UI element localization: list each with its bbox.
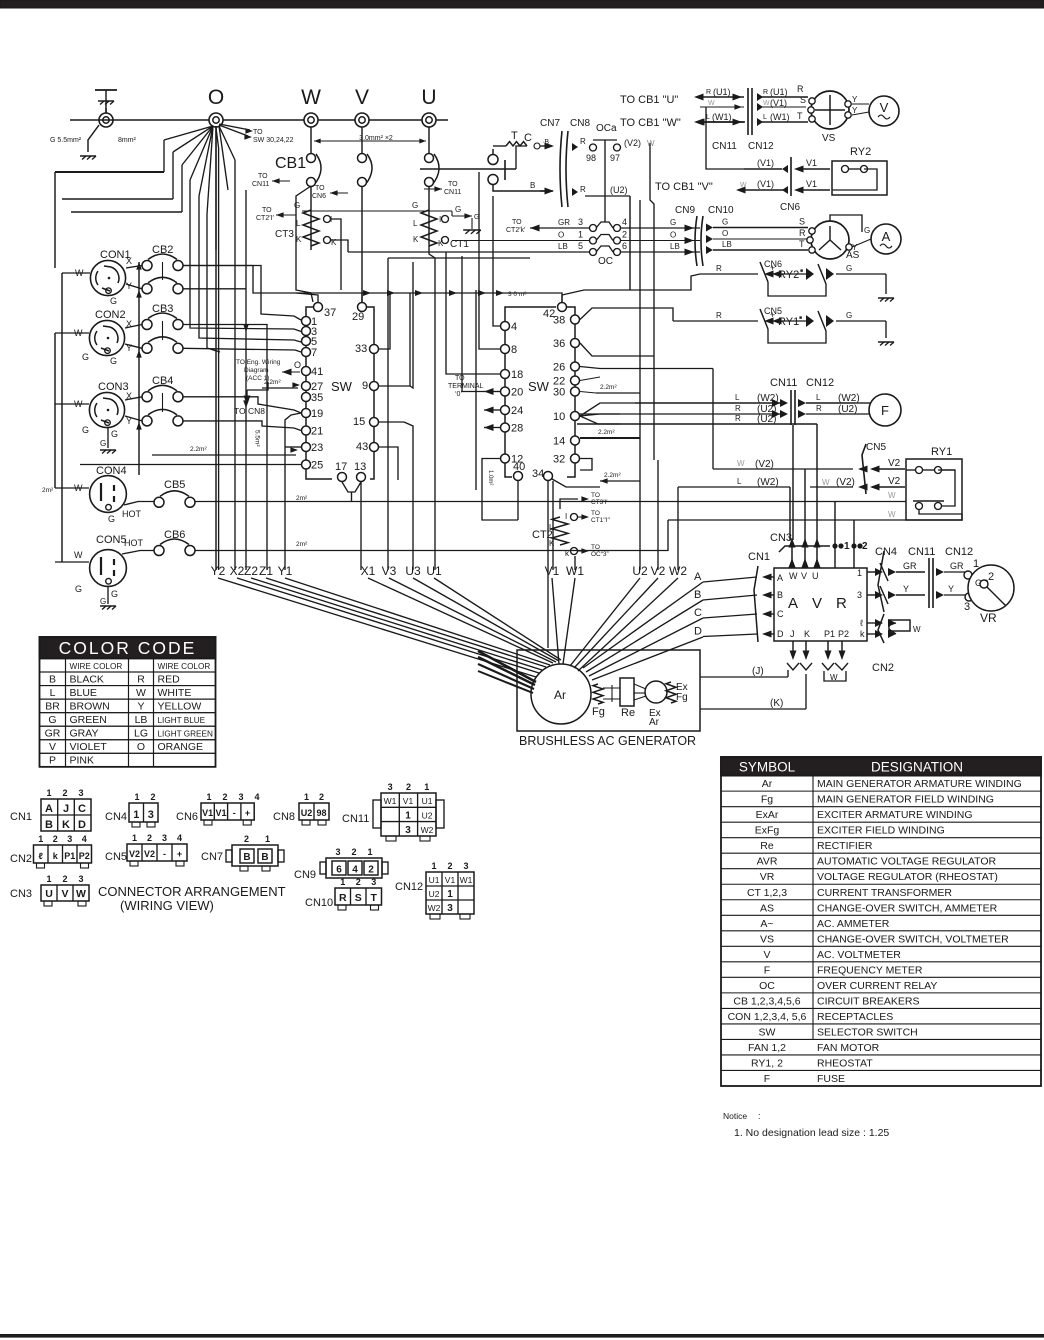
svg-text:A: A: [788, 595, 798, 612]
svg-text:LB: LB: [558, 242, 568, 251]
svg-text:U2: U2: [429, 889, 440, 899]
SW2 pin 8: [501, 345, 510, 354]
connector CN11/CN12 (VS): [747, 88, 749, 135]
svg-text:T: T: [371, 892, 378, 904]
svg-text:CT2′k′: CT2′k′: [506, 227, 526, 234]
svg-text:T: T: [797, 111, 803, 121]
svg-text:R: R: [137, 673, 145, 685]
svg-text:1: 1: [424, 782, 429, 792]
svg-text:K: K: [549, 539, 555, 548]
svg-text:A: A: [882, 229, 891, 244]
svg-text:28: 28: [511, 423, 523, 435]
SW2 pin 22: [571, 376, 580, 385]
svg-text:2.2m²: 2.2m²: [600, 384, 617, 391]
svg-text:(W1): (W1): [712, 112, 732, 122]
meter AS: [811, 221, 849, 259]
ground (RY2): [878, 298, 894, 302]
SW2 pin 32: [571, 454, 580, 463]
SW1 pin 3: [302, 327, 311, 336]
svg-text:B: B: [243, 852, 250, 863]
wire V2 vert: [657, 369, 659, 571]
ground (RY1): [878, 342, 894, 346]
svg-text:A: A: [694, 571, 702, 583]
svg-text:CN11: CN11: [712, 141, 737, 152]
svg-text:CN4: CN4: [875, 546, 897, 558]
svg-text:CN1: CN1: [748, 551, 770, 563]
svg-text:2: 2: [356, 877, 361, 887]
svg-text:CN6: CN6: [176, 811, 198, 823]
wire CN10 LB row: [706, 246, 713, 254]
SW1 pin 25: [302, 460, 311, 469]
svg-text:O: O: [137, 741, 145, 753]
svg-text:I: I: [439, 215, 441, 224]
svg-text:2: 2: [988, 571, 994, 583]
svg-text:(V1): (V1): [757, 179, 774, 189]
svg-text:3: 3: [238, 792, 243, 802]
svg-text:R: R: [799, 228, 806, 238]
svg-text:TO: TO: [448, 181, 458, 188]
svg-text:1: 1: [367, 847, 372, 857]
SW2 pin 34: [544, 472, 553, 481]
label TO OC 3: [578, 550, 585, 552]
SW1 pin 7: [302, 348, 311, 357]
wire mid vert U1: [429, 244, 435, 570]
svg-text:FUSE: FUSE: [817, 1073, 845, 1085]
connector CN4 arcs: [878, 551, 884, 612]
wire CB4Y out: [183, 421, 301, 431]
svg-text:LB: LB: [722, 240, 732, 249]
svg-text:SW 30,24,22: SW 30,24,22: [253, 137, 294, 144]
SW2 pin 24: [501, 406, 510, 415]
svg-text:W2: W2: [421, 825, 434, 835]
svg-text:T: T: [511, 130, 518, 142]
ground (CON5): [107, 586, 109, 604]
wire 34 bend: [553, 476, 604, 490]
svg-text:k: k: [860, 629, 865, 639]
wire R drop CN7: [629, 289, 631, 291]
connector CN2 arrows JK: [787, 663, 799, 670]
SW1 pin 23: [302, 443, 311, 452]
svg-text:V1: V1: [202, 808, 213, 818]
breaker CB4 pole X: [142, 392, 152, 402]
svg-text:W: W: [708, 100, 715, 107]
wire SW1 37 up: [296, 293, 318, 302]
op-amp AVR box: [774, 568, 867, 641]
svg-text:BLUE: BLUE: [70, 687, 97, 699]
wire A fan: [583, 582, 703, 668]
ground (left): [80, 156, 96, 160]
svg-text:(V1): (V1): [770, 98, 787, 108]
svg-text:U: U: [45, 888, 53, 900]
SW2 pin 30: [571, 387, 580, 396]
svg-text:13: 13: [354, 461, 366, 473]
svg-text:W: W: [830, 673, 838, 682]
svg-text:V: V: [763, 949, 770, 961]
svg-text:OVER CURRENT RELAY: OVER CURRENT RELAY: [817, 980, 937, 992]
svg-text:P1: P1: [64, 851, 75, 861]
SW1 pin 21: [302, 426, 311, 435]
svg-text:GR: GR: [903, 561, 917, 571]
breaker CB3 pole Y: [142, 343, 152, 353]
svg-text:W: W: [740, 182, 747, 189]
svg-text:O: O: [722, 229, 728, 238]
wire SW1 bottom V: [342, 482, 361, 492]
wire OC to CN9 arrows: [685, 225, 695, 232]
svg-text:W: W: [822, 478, 830, 487]
wire mid vert X1: [360, 482, 362, 570]
svg-text:OC: OC: [759, 980, 775, 992]
wire CON1-CB2: [126, 266, 142, 269]
svg-text:B: B: [45, 819, 53, 831]
svg-text:V: V: [880, 100, 889, 115]
wire left horiz 3: [71, 211, 182, 213]
svg-text:CN3: CN3: [770, 532, 792, 544]
wire 34 out: [547, 481, 549, 648]
svg-text:1.0m²: 1.0m²: [487, 470, 493, 485]
svg-text:GR: GR: [45, 728, 61, 740]
svg-text:1: 1: [578, 230, 583, 240]
svg-text:TO: TO: [262, 207, 272, 214]
svg-text:R: R: [706, 89, 711, 96]
svg-text:2: 2: [222, 792, 227, 802]
wire left horiz 2: [62, 198, 173, 200]
svg-text:3: 3: [388, 782, 393, 792]
svg-text:CN2: CN2: [10, 853, 32, 865]
svg-text:CT1′′I′′: CT1′′I′′: [591, 517, 611, 524]
svg-text:CN11: CN11: [770, 377, 797, 389]
svg-text:G: G: [48, 714, 56, 726]
svg-text:4: 4: [352, 865, 358, 876]
svg-text:G: G: [100, 439, 106, 448]
generator Fg coil: [593, 684, 603, 704]
svg-text:RY1: RY1: [931, 446, 952, 458]
svg-text:W: W: [647, 139, 655, 148]
svg-text:V2: V2: [144, 849, 155, 859]
svg-text:ExFg: ExFg: [755, 825, 780, 837]
svg-text:98: 98: [586, 153, 596, 163]
breaker CB1 pole V: [361, 127, 363, 153]
wire L(W2) row: [635, 402, 782, 404]
wire CB3X out: [199, 196, 301, 342]
svg-text:C: C: [694, 607, 702, 619]
svg-text:2: 2: [862, 541, 868, 552]
svg-text:VR: VR: [760, 871, 775, 883]
svg-text:FREQUENCY METER: FREQUENCY METER: [817, 964, 923, 976]
svg-text:CN8: CN8: [273, 811, 295, 823]
svg-text:G: G: [846, 311, 852, 320]
current transformer CT1: [421, 210, 437, 246]
svg-text:GR: GR: [558, 218, 570, 227]
wire row 469 left: [712, 468, 714, 470]
wire CB1 W drop: [310, 186, 312, 250]
wire cn9 cont a: [704, 228, 706, 240]
generator ExFg coil: [666, 682, 676, 703]
svg-text:CN5: CN5: [866, 442, 886, 453]
terminal W: [304, 113, 318, 127]
svg-text:F: F: [764, 1073, 770, 1085]
svg-text:(U2): (U2): [838, 404, 857, 415]
SW2 pin 36: [571, 339, 580, 348]
svg-text:G: G: [111, 589, 118, 599]
SW2 pin 10: [571, 412, 580, 421]
svg-text:2: 2: [368, 865, 374, 876]
wire D fan: [592, 637, 703, 680]
svg-text:Fg: Fg: [676, 692, 688, 703]
wire R(U2) row3: [577, 423, 817, 425]
wire CON3-CB4: [125, 397, 142, 400]
svg-text:(U2): (U2): [757, 414, 776, 425]
svg-text:30: 30: [553, 387, 565, 399]
wire mid vert U3: [404, 422, 413, 570]
SW2 pin 18: [501, 370, 510, 379]
svg-text:CONNECTOR ARRANGEMENT: CONNECTOR ARRANGEMENT: [98, 884, 286, 899]
svg-text:23: 23: [311, 442, 323, 454]
svg-text:G: G: [846, 264, 852, 273]
svg-text:WHITE: WHITE: [158, 687, 192, 699]
svg-text:X1: X1: [361, 564, 376, 578]
svg-text:3: 3: [857, 590, 862, 600]
wire arrow 20: [484, 388, 494, 395]
svg-text:CON2: CON2: [95, 309, 126, 321]
terminal U: [422, 113, 436, 127]
svg-text:D: D: [694, 626, 702, 638]
SW1 pin 9: [370, 382, 379, 391]
svg-text:F: F: [764, 964, 770, 976]
SW1 pin 27: [302, 382, 311, 391]
wire CN10 O row: [706, 235, 713, 243]
svg-text:D: D: [78, 819, 86, 831]
switch SW1 outline: [306, 307, 332, 479]
svg-text:GR: GR: [950, 561, 964, 571]
resistor W (AVR): [889, 623, 896, 625]
wire 10 out a: [580, 403, 635, 416]
svg-text:1: 1: [134, 792, 139, 802]
SW1 pin 17: [338, 473, 347, 482]
svg-text:G: G: [110, 296, 117, 306]
svg-text:CN6: CN6: [312, 193, 326, 200]
svg-text:LB: LB: [670, 242, 680, 251]
wire W(V2) row1: [713, 468, 853, 470]
svg-text:S: S: [800, 95, 806, 105]
SW1 pin 41: [302, 367, 311, 376]
svg-text:D: D: [777, 629, 784, 639]
svg-text:S: S: [355, 892, 362, 904]
svg-text:K: K: [804, 629, 810, 639]
svg-text:I: I: [565, 512, 567, 521]
relay OC contact 3-4: [556, 227, 589, 229]
breaker CB2 pole Y: [142, 284, 152, 294]
svg-text:C: C: [777, 609, 784, 619]
svg-text:L: L: [737, 477, 742, 486]
svg-text:(V2): (V2): [836, 477, 855, 488]
svg-text:43: 43: [356, 441, 368, 453]
svg-text:2: 2: [622, 230, 627, 240]
svg-text:VS: VS: [822, 133, 836, 144]
svg-text:LIGHT GREEN: LIGHT GREEN: [158, 730, 213, 739]
svg-text:(U1): (U1): [713, 87, 731, 97]
svg-text:Y: Y: [948, 584, 954, 594]
svg-text:R: R: [580, 137, 586, 146]
wire CB2Y out: [183, 288, 246, 290]
svg-text:(WIRING VIEW): (WIRING VIEW): [120, 898, 214, 913]
wire X bus: [138, 262, 140, 475]
svg-text:2: 2: [53, 834, 58, 844]
svg-text:3: 3: [463, 861, 468, 871]
terminal O: [209, 113, 223, 127]
svg-text:P: P: [49, 755, 56, 767]
svg-text:3 0 m²: 3 0 m²: [508, 291, 527, 298]
svg-text:24: 24: [511, 405, 523, 417]
svg-text:33: 33: [355, 343, 367, 355]
SW1 pin 15: [370, 418, 379, 427]
generator ExAr winding: [645, 681, 667, 703]
wire row L(W1): [694, 119, 704, 126]
label TO CT3 I: [560, 499, 578, 509]
wire vert Z2: [245, 190, 247, 570]
svg-text:CURRENT TRANSFORMER: CURRENT TRANSFORMER: [817, 887, 952, 899]
svg-text:15: 15: [353, 416, 365, 428]
svg-text:CT2′I′: CT2′I′: [256, 215, 274, 222]
svg-text:CB5: CB5: [164, 479, 185, 491]
svg-text:MAIN GENERATOR FIELD WINDING: MAIN GENERATOR FIELD WINDING: [817, 794, 994, 806]
svg-text:P2: P2: [79, 851, 90, 861]
svg-text:(J): (J): [752, 666, 764, 677]
wire L(W1) right: [757, 118, 763, 126]
wire bus: [70, 119, 448, 121]
svg-text:W: W: [763, 100, 770, 107]
SW1 pin 5: [302, 337, 311, 346]
breaker CB5 pole: [154, 497, 164, 507]
svg-text:SELECTOR SWITCH: SELECTOR SWITCH: [817, 1026, 918, 1038]
svg-text:U1: U1: [429, 875, 440, 885]
svg-text:TO CB1 "V": TO CB1 "V": [655, 181, 713, 193]
svg-text:V: V: [49, 741, 56, 753]
wire fanline 2: [172, 152, 174, 199]
svg-text:+: +: [770, 310, 775, 320]
wire W(V1) right: [757, 103, 763, 111]
svg-text:Ar: Ar: [649, 717, 660, 728]
svg-text:G: G: [864, 226, 870, 235]
svg-text:U: U: [812, 571, 819, 581]
svg-text:W2: W2: [428, 903, 441, 913]
wire (V1) row2: [736, 187, 746, 194]
relay OC contact 5-6: [348, 251, 589, 253]
table SYMBOL header: [721, 757, 1041, 776]
svg-text:26: 26: [553, 362, 565, 374]
meter VS: [811, 91, 849, 129]
svg-text:G: G: [670, 218, 676, 227]
connector CN7/CN8 symbol: [560, 131, 562, 207]
svg-text:4: 4: [511, 321, 517, 333]
wire CB5 out: [195, 501, 906, 503]
generator box: [517, 650, 700, 731]
svg-text:CB 1,2,3,4,5,6: CB 1,2,3,4,5,6: [733, 995, 800, 1007]
svg-text:97: 97: [610, 153, 620, 163]
svg-text:1: 1: [447, 889, 453, 900]
svg-text:3: 3: [371, 877, 376, 887]
svg-text:RECTIFIER: RECTIFIER: [817, 840, 873, 852]
svg-text:98: 98: [316, 808, 326, 818]
svg-text:1: 1: [405, 811, 411, 822]
wire R(U1) right: [757, 93, 763, 101]
svg-text:R: R: [816, 404, 822, 413]
svg-text:V1: V1: [445, 875, 456, 885]
connector CN6 bar: [790, 157, 792, 196]
svg-text:G: G: [294, 201, 300, 210]
svg-text:CN7: CN7: [201, 851, 223, 863]
svg-text:■: ■: [799, 315, 802, 321]
svg-text:L: L: [763, 114, 767, 121]
svg-text:35: 35: [311, 392, 323, 404]
meter V: [869, 96, 899, 126]
svg-text:CN9: CN9: [294, 869, 316, 881]
svg-text:CN12: CN12: [395, 881, 423, 893]
svg-text:R: R: [836, 595, 847, 612]
wire CON4-CB5: [124, 502, 154, 506]
svg-text:3: 3: [447, 903, 453, 914]
ground terminal: [99, 113, 113, 127]
SW1 pin 33: [370, 345, 379, 354]
svg-text:X: X: [126, 256, 132, 266]
svg-text:VR: VR: [980, 611, 997, 625]
table SYMBOL body: [721, 775, 1041, 777]
svg-text:V1: V1: [403, 796, 414, 806]
wire fan thick: [478, 651, 536, 682]
wire mid vert V3: [387, 258, 389, 570]
wire ground to bus: [105, 108, 107, 113]
svg-text:(V2): (V2): [624, 138, 641, 148]
svg-text:2.2m²: 2.2m²: [190, 446, 207, 453]
svg-text:K: K: [438, 239, 444, 248]
svg-text:AVR: AVR: [757, 856, 778, 868]
wire fan arrow to SW: [219, 125, 248, 136]
wire left vert b: [61, 273, 63, 562]
svg-text:(V1): (V1): [757, 158, 774, 168]
svg-text:42: 42: [543, 308, 555, 320]
svg-text:3: 3: [335, 847, 340, 857]
svg-text:R: R: [797, 84, 804, 94]
svg-text:G: G: [100, 597, 106, 606]
wire RY1 W row2: [668, 510, 962, 520]
wire B row2: [540, 190, 552, 192]
svg-text:P2: P2: [838, 629, 849, 639]
svg-text:2: 2: [351, 847, 356, 857]
svg-text:AS: AS: [846, 250, 860, 261]
wire CN10 G row: [706, 224, 713, 232]
svg-text:VIOLET: VIOLET: [70, 741, 108, 753]
rheostat VR: [968, 565, 1014, 611]
wire CB2X to pin1: [183, 266, 301, 321]
svg-text:V1: V1: [545, 564, 560, 578]
svg-text:L: L: [413, 219, 418, 228]
svg-text:ExAr: ExAr: [756, 809, 779, 821]
svg-text:1: 1: [857, 568, 862, 578]
wire GR to VR: [936, 568, 944, 576]
svg-text:TO: TO: [258, 173, 268, 180]
wire long vert 668: [667, 460, 669, 520]
SW1 pin 43: [370, 443, 379, 452]
svg-text:CIRCUIT BREAKERS: CIRCUIT BREAKERS: [817, 995, 920, 1007]
svg-text:18: 18: [511, 369, 523, 381]
svg-text:2: 2: [406, 782, 411, 792]
svg-text:R: R: [735, 414, 741, 423]
svg-text:3: 3: [964, 601, 970, 613]
wire R(U2) row: [572, 413, 782, 415]
svg-text:4: 4: [622, 217, 627, 227]
svg-text:SW: SW: [331, 379, 353, 394]
svg-text:CT3′I′: CT3′I′: [591, 499, 608, 506]
wire F drop: [816, 428, 818, 540]
